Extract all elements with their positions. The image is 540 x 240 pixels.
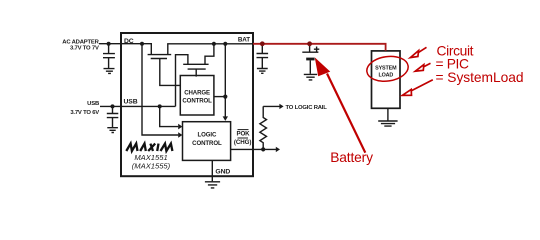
svg-text:GND: GND [215, 169, 230, 176]
wire Q2 source to USB line [176, 55, 188, 107]
svg-text:(CHG): (CHG) [234, 139, 251, 146]
ground (C1) [104, 69, 115, 74]
wire Q2 drain from BAT rail [205, 44, 214, 65]
capacitor C2 (USB input) [107, 106, 119, 127]
logic control block [183, 122, 231, 161]
resistor R1 pullup [260, 106, 267, 149]
label battery plus [314, 47, 319, 52]
arrowhead to logic rail [279, 104, 283, 109]
transistor Q2 gate [188, 69, 206, 77]
transistor Q1 (DC pass FET) channel [148, 54, 172, 56]
svg-text:USB: USB [124, 98, 138, 105]
node BAT rail junction 2 [223, 42, 227, 46]
annotation red ellipse around SYSTEM LOAD [365, 54, 410, 84]
node charge control tap [223, 95, 227, 99]
annotation arrow 2 (PIC) [415, 63, 430, 71]
node USB input junction [111, 104, 115, 108]
svg-text:TO LOGIC RAIL: TO LOGIC RAIL [286, 105, 328, 111]
wire USB input [100, 105, 176, 107]
wire to logic rail [263, 105, 279, 107]
node DC internal junction [140, 42, 144, 46]
ground (battery) [304, 74, 317, 80]
node DC input junction [107, 42, 111, 46]
wire GND pin [211, 160, 213, 181]
node BAT cap junction (red) [260, 41, 265, 46]
svg-text:CONTROL: CONTROL [182, 97, 212, 104]
svg-text:3.7V TO 6V: 3.7V TO 6V [70, 110, 99, 116]
arrowhead into logic (BAT) [223, 116, 228, 121]
svg-text:3.7V TO 7V: 3.7V TO 7V [70, 46, 99, 52]
wire POK/CHG output [231, 148, 276, 150]
logo MAXIM [126, 144, 172, 151]
arrowhead into logic (DC) [178, 132, 182, 138]
svg-text:SYSTEM: SYSTEM [375, 66, 397, 72]
svg-text:(MAX1555): (MAX1555) [132, 162, 171, 171]
wire Q1 drain to BAT rail [168, 44, 253, 55]
capacitor C1 (AC adapter input) [103, 44, 115, 68]
transistor Q1 gate [151, 59, 181, 86]
annotation arrow 1 (Circuit) [410, 47, 426, 57]
svg-text:CHARGE: CHARGE [184, 89, 210, 96]
IC U1 MAX1551 box [121, 33, 253, 176]
wire DC to logic control [142, 44, 178, 135]
svg-text:Battery: Battery [330, 150, 373, 165]
svg-text:LOGIC: LOGIC [198, 132, 217, 139]
capacitor C3 (BAT) [257, 44, 269, 68]
wire USB to logic control [160, 106, 179, 126]
battery BT1 [302, 44, 318, 74]
svg-text:DC: DC [124, 38, 134, 45]
node battery junction (red) [307, 41, 312, 46]
wire system load ground lead [387, 108, 389, 120]
arrowhead POK output [276, 147, 280, 152]
system load box [372, 51, 401, 108]
ground (system load) [378, 121, 397, 126]
black small text labels [62, 37, 397, 176]
wire charge control to BAT line [214, 96, 225, 98]
node USB internal junction [158, 104, 162, 108]
arrowhead into logic (USB) [178, 124, 182, 130]
transistor Q2 (USB pass FET) channel [183, 63, 208, 65]
svg-text:USB: USB [87, 101, 99, 107]
svg-text:MAX1551: MAX1551 [134, 153, 167, 162]
svg-text:POK: POK [236, 130, 250, 137]
wire DC input [99, 44, 151, 55]
ground (IC GND) [205, 182, 220, 188]
node POK junction [261, 147, 265, 151]
svg-text:AC ADAPTER: AC ADAPTER [62, 39, 99, 45]
svg-text:CONTROL: CONTROL [192, 140, 222, 147]
node BAT rail junction 1 [212, 42, 216, 46]
annotation arrow to battery [316, 59, 366, 153]
svg-text:= SystemLoad: = SystemLoad [436, 70, 524, 85]
svg-text:LOAD: LOAD [378, 73, 393, 79]
wire BAT rail down to charge/logic [224, 44, 226, 117]
charge control block [180, 76, 214, 116]
wire BAT red rail [253, 44, 386, 51]
overline POK [238, 129, 249, 131]
overline CHG [238, 137, 249, 139]
ground (C3) [257, 69, 268, 74]
ground (C2) [107, 128, 118, 133]
svg-text:BAT: BAT [238, 37, 250, 44]
annotation arrow 3 (SystemLoad) [402, 80, 433, 96]
